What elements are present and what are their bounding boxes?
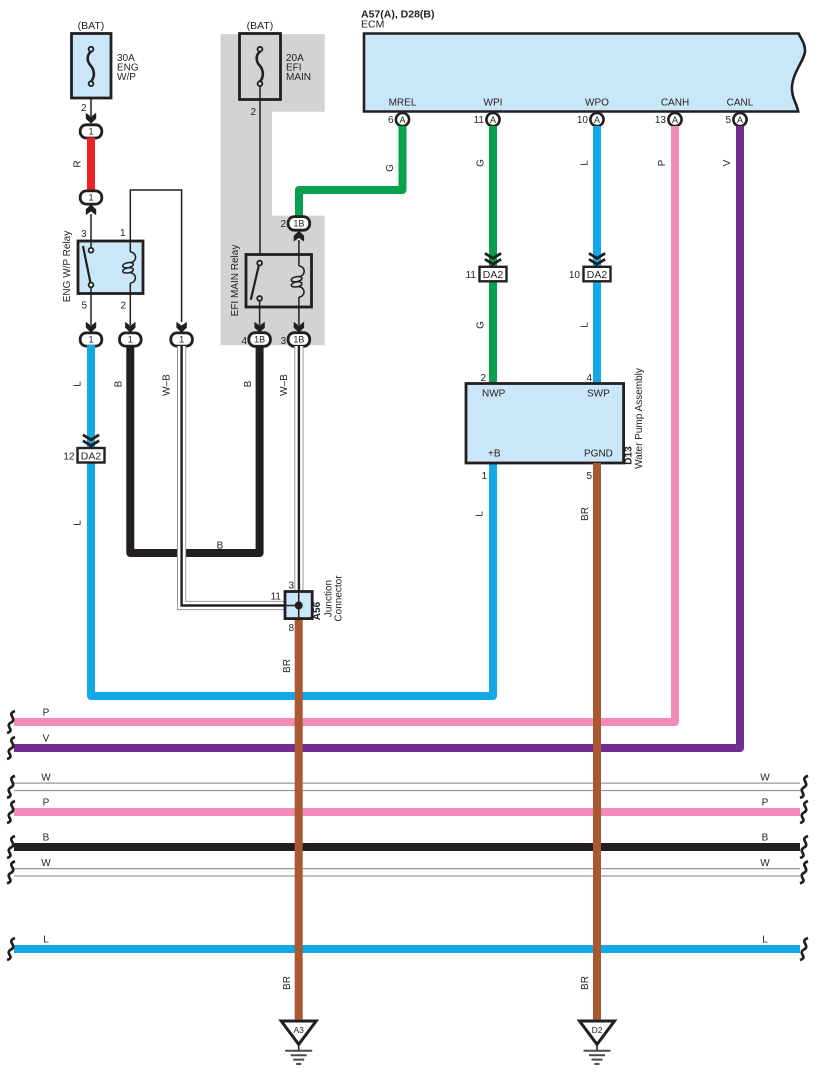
svg-text:L: L xyxy=(762,935,768,946)
connector oval 1 (L wire) xyxy=(80,333,102,346)
svg-text:D13: D13 xyxy=(624,446,635,465)
svg-text:3: 3 xyxy=(81,229,87,240)
svg-text:2: 2 xyxy=(250,107,256,118)
svg-text:B: B xyxy=(114,380,125,387)
svg-text:1: 1 xyxy=(88,335,93,346)
svg-text:L: L xyxy=(73,381,84,387)
svg-text:W: W xyxy=(41,772,51,783)
svg-text:10: 10 xyxy=(577,115,589,126)
svg-text:3: 3 xyxy=(281,336,287,347)
svg-text:11: 11 xyxy=(271,592,282,603)
svg-text:A3: A3 xyxy=(293,1025,304,1035)
svg-text:1B: 1B xyxy=(293,219,304,229)
svg-text:5: 5 xyxy=(586,471,592,482)
arrow into connector 1 xyxy=(86,113,96,124)
svg-text:2: 2 xyxy=(480,373,486,384)
svg-text:R: R xyxy=(73,160,84,167)
arrow xyxy=(294,322,304,333)
svg-text:BR: BR xyxy=(580,507,591,521)
wire to relay pin 3 xyxy=(90,214,92,250)
ECM pin 13 connector A (CANH) xyxy=(668,113,681,126)
svg-text:Water Pump Assembly: Water Pump Assembly xyxy=(634,368,645,469)
wire V from CANL to bus xyxy=(14,126,740,748)
svg-text:CANH: CANH xyxy=(661,98,689,109)
svg-text:Connector: Connector xyxy=(334,575,345,622)
svg-text:L: L xyxy=(475,511,486,517)
ECM A57(A), D28(B) connector box xyxy=(364,34,805,112)
svg-text:4: 4 xyxy=(241,336,247,347)
svg-text:BR: BR xyxy=(282,976,293,990)
junction connector A56 xyxy=(285,592,312,619)
connector oval 2-1B above EFI relay coil xyxy=(288,217,310,231)
svg-text:L: L xyxy=(73,520,84,526)
ECM pin 5 connector A (CANL) xyxy=(733,113,746,126)
ECM pin 11 connector A (WPI) xyxy=(486,113,499,126)
chevron arrows on L wire (WPO) xyxy=(589,253,605,264)
EFI relay coil xyxy=(298,255,300,267)
wire G from MREL to EFI MAIN relay pin 2 xyxy=(299,126,403,217)
svg-text:2: 2 xyxy=(81,103,87,114)
svg-text:W–B: W–B xyxy=(279,374,290,396)
svg-text:4: 4 xyxy=(586,373,592,384)
svg-text:2: 2 xyxy=(120,301,126,312)
svg-text:P: P xyxy=(762,798,769,809)
svg-text:MAIN: MAIN xyxy=(286,72,311,83)
svg-text:WPI: WPI xyxy=(484,98,503,109)
bus wire P (pink) xyxy=(14,808,800,816)
svg-text:1: 1 xyxy=(120,228,126,239)
bus wire B (black) xyxy=(14,843,800,851)
wire G from WPI to water pump NWP xyxy=(489,126,497,384)
connector oval 1 (B wire) xyxy=(120,333,142,346)
svg-text:B: B xyxy=(217,541,224,552)
connector oval 1 (above ENG W/P relay) xyxy=(80,191,102,204)
wires below EFI relay xyxy=(259,301,261,325)
brace left of P bus xyxy=(7,711,15,733)
svg-text:NWP: NWP xyxy=(482,389,506,400)
fuse 20A EFI MAIN xyxy=(240,34,281,100)
svg-text:10: 10 xyxy=(569,270,581,281)
wire fuse to relay switch xyxy=(259,87,261,261)
svg-text:1B: 1B xyxy=(254,335,265,345)
svg-text:+B: +B xyxy=(488,449,501,460)
svg-text:(BAT): (BAT) xyxy=(78,20,105,32)
svg-text:5: 5 xyxy=(81,301,87,312)
svg-text:A: A xyxy=(399,115,405,125)
svg-text:1: 1 xyxy=(88,127,93,138)
svg-text:MREL: MREL xyxy=(389,98,417,109)
brace left of P bus xyxy=(7,801,15,823)
svg-text:W: W xyxy=(760,858,770,869)
brace right of W bus xyxy=(800,776,808,798)
svg-text:G: G xyxy=(476,159,487,167)
arrow up into oval xyxy=(86,204,96,215)
svg-text:CANL: CANL xyxy=(727,98,754,109)
svg-text:DA2: DA2 xyxy=(81,450,102,462)
svg-text:G: G xyxy=(476,321,487,329)
connector 11 DA2 xyxy=(480,267,507,282)
wire BR from PGND to ground D2 xyxy=(593,463,601,1019)
fuse 30A ENG W/P xyxy=(72,34,112,99)
brace left of B bus xyxy=(7,836,15,858)
svg-text:W: W xyxy=(41,858,51,869)
svg-text:EFI MAIN Relay: EFI MAIN Relay xyxy=(230,245,241,317)
svg-text:W/P: W/P xyxy=(117,72,136,83)
wire relay pin2 down xyxy=(129,294,131,326)
wire W-B from connector 1 to junction A56 xyxy=(182,346,285,606)
svg-text:A: A xyxy=(737,115,743,125)
brace right of L bus xyxy=(800,938,808,960)
svg-text:1: 1 xyxy=(481,471,487,482)
bus wire L (blue) xyxy=(14,945,800,953)
wire from fuse 30A to connector xyxy=(90,86,92,116)
relay coil xyxy=(129,241,131,252)
svg-text:BR: BR xyxy=(580,976,591,990)
svg-text:6: 6 xyxy=(388,115,394,126)
bus wire W (lower) xyxy=(14,868,800,870)
arrow xyxy=(176,322,186,333)
svg-text:ECM: ECM xyxy=(361,19,384,31)
fuse element symbol xyxy=(257,47,263,86)
svg-text:8: 8 xyxy=(288,623,294,634)
chevron arrows on G wire xyxy=(485,253,501,264)
svg-text:5: 5 xyxy=(725,115,731,126)
ECM pin 6 connector A (MREL) xyxy=(396,113,409,126)
connector oval 1 (below 30A fuse) xyxy=(80,125,102,138)
brace left of L bus xyxy=(7,938,15,960)
svg-text:L: L xyxy=(43,935,49,946)
svg-text:3: 3 xyxy=(288,581,294,592)
connector oval 1 (W-B wire) xyxy=(171,333,193,346)
svg-text:BR: BR xyxy=(282,659,293,673)
svg-text:P: P xyxy=(657,159,668,166)
svg-text:SWP: SWP xyxy=(587,389,610,400)
svg-text:ENG W/P Relay: ENG W/P Relay xyxy=(62,231,73,303)
svg-text:W: W xyxy=(760,772,770,783)
svg-text:PGND: PGND xyxy=(584,449,613,460)
brace left of lower W bus xyxy=(7,861,15,883)
relay ENG W/P Relay xyxy=(78,241,143,294)
svg-text:DA2: DA2 xyxy=(587,269,608,281)
svg-text:G: G xyxy=(385,164,396,172)
svg-text:B: B xyxy=(43,833,50,844)
brace right of P bus xyxy=(800,801,808,823)
wire B from relay pin2 to EFI relay 4-1B xyxy=(130,345,259,553)
wire L from WPO to water pump SWP xyxy=(593,126,601,384)
connector oval 4-1B xyxy=(249,333,271,347)
svg-text:(BAT): (BAT) xyxy=(247,20,274,32)
brace left of W bus xyxy=(7,776,15,798)
relay EFI MAIN Relay xyxy=(246,255,312,308)
connector oval 3-1B xyxy=(288,333,310,347)
svg-text:L: L xyxy=(580,160,591,166)
wire relay pin5 down xyxy=(90,294,92,326)
svg-text:A: A xyxy=(672,115,678,125)
svg-text:1: 1 xyxy=(88,193,93,204)
svg-text:B: B xyxy=(243,380,254,387)
brace right of lower W bus xyxy=(800,861,808,883)
arrow xyxy=(86,322,96,333)
water pump assembly D13 box xyxy=(466,384,624,464)
svg-text:13: 13 xyxy=(655,115,667,126)
svg-text:11: 11 xyxy=(474,115,485,126)
svg-text:W–B: W–B xyxy=(162,374,173,396)
svg-text:1: 1 xyxy=(179,335,184,346)
chevron arrows on L wire xyxy=(83,435,99,446)
ground D2 xyxy=(580,1021,615,1044)
connector 12 DA2 xyxy=(78,448,105,463)
arrow xyxy=(125,322,135,333)
wire L from relay pin5 down and to water pump +B xyxy=(91,345,493,696)
wire BR from junction A56 to ground A3 xyxy=(295,615,303,1019)
svg-text:WPO: WPO xyxy=(585,98,609,109)
svg-text:1: 1 xyxy=(128,335,133,346)
arrow up into 1B oval xyxy=(294,231,304,242)
bus wire W (upper) xyxy=(14,782,800,784)
svg-text:1B: 1B xyxy=(293,335,304,345)
svg-text:12: 12 xyxy=(63,451,75,462)
fuse element symbol xyxy=(88,47,94,86)
svg-text:A: A xyxy=(594,115,600,125)
svg-text:DA2: DA2 xyxy=(483,269,504,281)
wire from arrow to relay xyxy=(298,240,300,255)
svg-text:11: 11 xyxy=(466,270,477,281)
wire P from CANH to bus xyxy=(14,126,675,722)
svg-text:B: B xyxy=(762,833,769,844)
gray shaded region around EFI MAIN circuit xyxy=(221,34,325,345)
arrow xyxy=(254,322,264,333)
wire R (red) xyxy=(87,138,95,192)
svg-text:L: L xyxy=(580,322,591,328)
ground A3 xyxy=(281,1021,316,1044)
wire W-B from EFI relay 3-1B to junction A56 xyxy=(294,346,303,592)
svg-text:V: V xyxy=(43,734,50,745)
svg-text:V: V xyxy=(722,159,733,166)
svg-text:2: 2 xyxy=(280,219,286,230)
svg-text:D2: D2 xyxy=(592,1025,603,1035)
svg-text:P: P xyxy=(43,708,50,719)
svg-text:P: P xyxy=(43,798,50,809)
connector 10 DA2 xyxy=(584,267,611,282)
ECM pin 10 connector A (WPO) xyxy=(590,113,603,126)
wire loop from relay pin 1 to connector xyxy=(130,190,181,322)
svg-text:A56: A56 xyxy=(312,601,323,620)
brace left of V bus xyxy=(7,737,15,759)
brace right of B bus xyxy=(800,836,808,858)
svg-text:A: A xyxy=(490,115,496,125)
